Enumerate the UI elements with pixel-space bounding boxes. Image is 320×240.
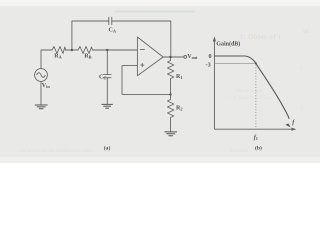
wire Cc to ground <box>106 78 108 104</box>
capacitor Ca <box>109 17 112 24</box>
source Vin <box>35 69 48 82</box>
svg-text:CC: CC <box>99 75 106 81</box>
wire Vin bottom <box>40 81 42 104</box>
x axis <box>214 128 294 130</box>
x axis arrow <box>292 128 297 131</box>
response curve <box>214 56 289 119</box>
op-amp U1 <box>137 37 163 76</box>
graph (b) <box>214 39 294 129</box>
terminal Vout <box>184 56 187 59</box>
resistor R2 <box>168 94 174 131</box>
svg-text:R1: R1 <box>176 74 183 80</box>
svg-text:no od win ten ten minuter a to: no od win ten ten minuter a to come <box>20 149 93 154</box>
node B <box>106 49 108 51</box>
capacitor Cc <box>104 75 112 78</box>
wire feedback up <box>72 21 109 50</box>
ground (Cc) <box>102 104 113 108</box>
wire node B to opamp <box>93 49 138 51</box>
wire node B down <box>106 50 108 75</box>
svg-text:(b): (b) <box>255 144 262 151</box>
y axis <box>213 39 215 129</box>
svg-text:t. Objet of t: t. Objet of t <box>241 33 281 41</box>
svg-text:94: 94 <box>303 29 309 35</box>
y axis arrow <box>213 36 216 41</box>
wire top right <box>112 21 171 57</box>
ground (Vin) <box>35 105 48 109</box>
resistor Rb <box>77 47 93 54</box>
svg-text:is to at the first than o: is to at the first than o <box>228 96 272 101</box>
wire plus feedback <box>122 66 171 95</box>
node A <box>71 49 73 51</box>
wire Vin top <box>41 50 51 69</box>
wire node A <box>66 49 77 51</box>
resistor R1 <box>168 57 174 94</box>
svg-text:th barole: th barole <box>230 149 248 154</box>
dotted line f1 <box>255 65 257 130</box>
wire output <box>163 56 184 58</box>
svg-text:CA: CA <box>109 28 117 34</box>
faint bleedthrough smudges <box>115 11 195 13</box>
svg-text:f1: f1 <box>254 135 258 141</box>
minus input <box>140 49 144 51</box>
ground (R2) <box>164 132 177 136</box>
svg-text:0: 0 <box>209 53 212 60</box>
labels graph <box>206 41 296 152</box>
minus3 line <box>214 62 254 64</box>
svg-text:lore an about: lore an about <box>236 89 263 94</box>
labels circuit <box>42 28 198 152</box>
svg-text:Vout: Vout <box>187 54 198 60</box>
node output <box>169 56 171 58</box>
svg-text:-3: -3 <box>206 61 211 68</box>
svg-text:(a): (a) <box>104 144 111 151</box>
resistor Ra <box>51 47 66 54</box>
svg-text:R2: R2 <box>176 106 183 112</box>
node divider <box>169 93 171 95</box>
svg-text:Gain(dB): Gain(dB) <box>216 41 240 48</box>
scanned page background <box>0 0 320 163</box>
svg-text:RA: RA <box>54 53 62 59</box>
curve arrow <box>286 123 291 127</box>
svg-text:Vin: Vin <box>42 83 51 89</box>
svg-text:RB: RB <box>84 53 91 59</box>
plus input <box>141 64 144 67</box>
knee node <box>255 62 257 64</box>
